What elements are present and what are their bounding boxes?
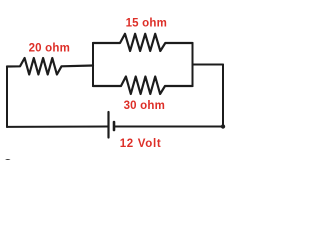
wire: bottom left segment (7, 126, 109, 128)
battery V1 short plate (113, 122, 116, 130)
wire: box left edge (92, 43, 94, 86)
decorative partial dot bottom-left (4, 159, 11, 165)
svg-text:20 ohm: 20 ohm (29, 42, 70, 54)
node: bottom-right junction dot (221, 124, 225, 128)
resistor R2 15 ohm (top branch of box) (93, 34, 193, 51)
resistor R1 20 ohm (left branch with stubs) (7, 58, 93, 75)
svg-text:15 ohm: 15 ohm (126, 18, 167, 30)
resistor R3 30 ohm (bottom branch of box) (93, 77, 193, 95)
battery V1 long plate (107, 112, 109, 138)
wire: bottom right segment (114, 126, 223, 128)
svg-text:12 Volt: 12 Volt (120, 138, 162, 150)
wire: right connecting horizontal (193, 64, 224, 66)
wire: left outer vertical (6, 67, 8, 128)
wire: right outer vertical (222, 65, 224, 127)
wire: box right edge (192, 43, 194, 86)
svg-text:30 ohm: 30 ohm (124, 100, 165, 112)
